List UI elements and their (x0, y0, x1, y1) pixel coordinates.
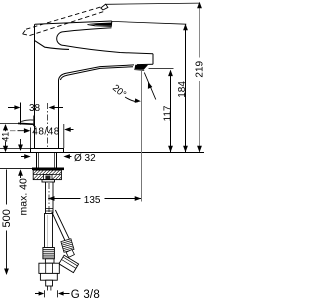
svg-text:117: 117 (163, 105, 174, 121)
svg-text:135: 135 (84, 195, 101, 206)
svg-text:500: 500 (1, 209, 13, 227)
svg-text:G 3/8: G 3/8 (71, 289, 100, 300)
svg-text:48/48: 48/48 (32, 126, 60, 137)
svg-text:184: 184 (177, 81, 188, 98)
svg-text:219: 219 (195, 60, 206, 77)
svg-text:max. 40: max. 40 (18, 178, 30, 216)
svg-text:38: 38 (29, 103, 41, 114)
svg-text:41: 41 (1, 132, 11, 142)
svg-text:Ø 32: Ø 32 (74, 153, 96, 164)
